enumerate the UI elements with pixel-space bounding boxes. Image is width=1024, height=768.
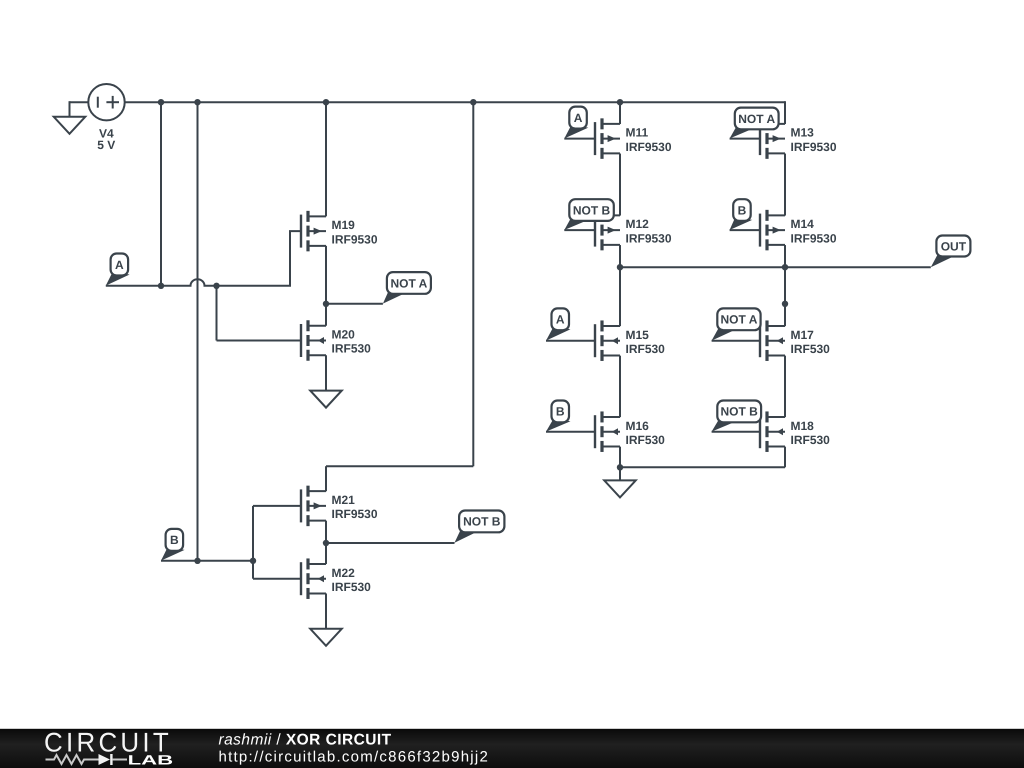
svg-text:M21: M21 — [332, 493, 356, 507]
svg-text:A: A — [574, 111, 583, 125]
svg-text:M15: M15 — [626, 328, 650, 342]
svg-text:NOT B: NOT B — [463, 515, 501, 529]
svg-text:M16: M16 — [626, 419, 650, 433]
svg-text:M13: M13 — [791, 126, 815, 140]
svg-text:M11: M11 — [626, 126, 649, 140]
svg-text:NOT A: NOT A — [738, 112, 775, 126]
svg-text:M18: M18 — [791, 419, 815, 433]
svg-text:IRF9530: IRF9530 — [626, 231, 672, 245]
svg-text:IRF530: IRF530 — [626, 433, 666, 447]
svg-text:B: B — [556, 405, 565, 419]
svg-text:B: B — [170, 533, 179, 547]
svg-text:IRF530: IRF530 — [626, 342, 666, 356]
svg-text:M20: M20 — [332, 328, 356, 342]
svg-text:NOT A: NOT A — [721, 313, 758, 327]
svg-text:IRF530: IRF530 — [791, 433, 831, 447]
svg-text:LAB: LAB — [128, 753, 174, 768]
svg-text:IRF9530: IRF9530 — [791, 140, 837, 154]
svg-text:M14: M14 — [791, 217, 815, 231]
svg-text:IRF530: IRF530 — [332, 342, 372, 356]
svg-text:IRF9530: IRF9530 — [626, 140, 672, 154]
svg-text:M22: M22 — [332, 566, 356, 580]
svg-text:A: A — [115, 258, 124, 272]
svg-text:IRF9530: IRF9530 — [332, 507, 378, 521]
svg-text:B: B — [738, 203, 747, 217]
svg-text:M12: M12 — [626, 217, 650, 231]
svg-text:IRF530: IRF530 — [332, 580, 372, 594]
svg-text:IRF9530: IRF9530 — [332, 232, 378, 246]
svg-text:5 V: 5 V — [97, 138, 115, 152]
svg-text:IRF9530: IRF9530 — [791, 231, 837, 245]
svg-text:http://circuitlab.com/c866f32b: http://circuitlab.com/c866f32b9hjj2 — [219, 749, 490, 766]
svg-text:NOT B: NOT B — [721, 405, 759, 419]
svg-text:rashmii / XOR CIRCUIT: rashmii / XOR CIRCUIT — [219, 732, 392, 749]
svg-text:NOT B: NOT B — [573, 203, 611, 217]
svg-text:M17: M17 — [791, 328, 815, 342]
svg-text:A: A — [556, 313, 565, 327]
svg-text:IRF530: IRF530 — [791, 342, 831, 356]
svg-text:M19: M19 — [332, 218, 356, 232]
svg-text:NOT A: NOT A — [390, 276, 427, 290]
svg-text:OUT: OUT — [941, 239, 967, 253]
